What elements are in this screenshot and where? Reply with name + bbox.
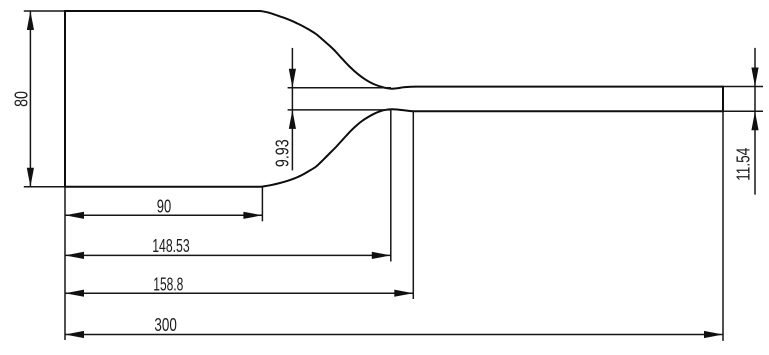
dimension 11.54: arrow up (below gap) xyxy=(751,111,758,130)
svg-text:80: 80 xyxy=(10,91,31,107)
dimension 11.54: extension line bottom xyxy=(724,110,764,112)
dimension 158.8: arrow left xyxy=(65,290,84,297)
dimension 90: arrow right xyxy=(243,212,262,219)
dimension 9.93: extension line bottom xyxy=(288,109,391,111)
dimension 9.93: arrow down (above gap) xyxy=(289,69,296,88)
dimension 158.8: dimension line xyxy=(65,292,413,294)
dimension 300: dimension line xyxy=(65,334,723,336)
specimen outline xyxy=(65,11,723,187)
dimension 80: arrow up xyxy=(27,11,34,30)
svg-text:148.53: 148.53 xyxy=(152,235,190,256)
dimension 80: dimension line xyxy=(29,11,31,187)
dimension 80: extension line top xyxy=(24,10,64,12)
svg-text:9.93: 9.93 xyxy=(271,139,292,167)
dimension 300: shared left extension line xyxy=(64,187,66,340)
dimension 11.54: dimension line xyxy=(754,48,756,195)
dimension 300: arrow right xyxy=(704,331,723,338)
svg-text:11.54: 11.54 xyxy=(733,148,754,181)
svg-text:300: 300 xyxy=(154,314,176,335)
dimension 148.53: arrow left xyxy=(65,252,84,259)
dimension 300: extension line right xyxy=(722,111,724,341)
dimension 90: arrow left xyxy=(65,212,84,219)
dimension 9.93: arrow up (below gap) xyxy=(289,110,296,129)
dimension 11.54: extension line top xyxy=(724,86,764,88)
dimension 148.53: extension line right xyxy=(390,109,392,261)
dimension 148.53: dimension line xyxy=(65,254,391,256)
dimension 300: arrow left xyxy=(65,331,84,338)
dimension 148.53: arrow right xyxy=(372,252,391,259)
svg-text:158.8: 158.8 xyxy=(153,274,183,295)
dimension 158.8: arrow right xyxy=(394,290,413,297)
dimension 80: arrow down xyxy=(27,168,34,187)
dimension 80: extension line bottom xyxy=(24,186,64,188)
svg-text:90: 90 xyxy=(157,196,171,217)
dimension 90: dimension line xyxy=(65,214,262,216)
dimension 90: extension line right xyxy=(261,187,263,222)
dimension 11.54: arrow down (above gap) xyxy=(751,68,758,87)
dimension 9.93: extension line top xyxy=(288,87,391,89)
dimension 158.8: extension line right xyxy=(412,111,414,299)
dimension 9.93: dimension line xyxy=(291,48,293,170)
